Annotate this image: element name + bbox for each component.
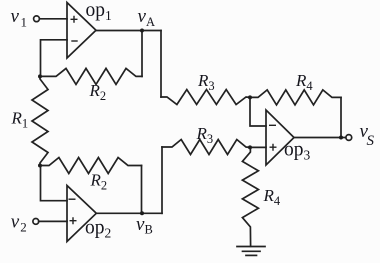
op1 - pin (71, 40, 77, 42)
op2 - pin (69, 198, 76, 200)
resistor R3 (top) (161, 90, 250, 105)
op-amp op2 (67, 186, 96, 242)
terminal v2 (33, 219, 39, 225)
node B junction (140, 211, 144, 215)
wire op3 output to terminal vS (294, 137, 346, 139)
wire node A down to R3 top (160, 31, 162, 98)
wire op2 output to node B (96, 212, 162, 214)
op2 + pin (70, 217, 77, 224)
ground (237, 246, 265, 248)
wire op1 - input feedback (41, 40, 68, 77)
wire junction to op3 + input (250, 146, 266, 148)
op-amp op1 (67, 3, 96, 59)
resistor R4 (bottom) (242, 147, 258, 246)
op1 + pin (71, 16, 78, 23)
svg-text:v2: v2 (11, 212, 27, 235)
output node junction (339, 136, 343, 140)
op3 + pin (270, 144, 277, 151)
node A junction (140, 29, 144, 33)
wire node B up to R3 bottom (161, 147, 163, 213)
svg-text:R3: R3 (196, 124, 214, 146)
svg-text:R2: R2 (89, 81, 107, 103)
svg-text:vB: vB (136, 214, 153, 237)
wire R2 bottom to node B (141, 166, 143, 214)
resistor R1 (32, 76, 48, 165)
svg-text:op3: op3 (284, 139, 311, 162)
node junction R1/R2 bottom (38, 164, 42, 168)
svg-text:R1: R1 (11, 108, 29, 130)
wire junction to op3 - input (250, 97, 266, 126)
wire v1 to op1 + input (39, 18, 67, 20)
node junction R3/R4 bottom (248, 145, 252, 149)
terminal v1 (34, 16, 40, 22)
svg-text:R2: R2 (90, 171, 108, 193)
resistor R2 (bottom) (40, 158, 142, 174)
svg-text:op1: op1 (86, 0, 112, 23)
wire R4 top down to output node (340, 97, 342, 137)
svg-text:R4: R4 (263, 186, 281, 208)
svg-text:v1: v1 (11, 6, 27, 30)
wire R2 top to node A (141, 31, 143, 77)
node junction R3/R4 top (248, 95, 252, 99)
terminal vS (346, 135, 352, 141)
svg-text:vA: vA (138, 6, 155, 29)
wire op1 output to node A (96, 30, 161, 32)
svg-text:vS: vS (360, 121, 375, 149)
wire op2 - input feedback (41, 166, 68, 201)
wire v2 to op2 + input (39, 220, 67, 222)
op-amp op3 (266, 110, 294, 165)
resistor R4 (top) (250, 90, 341, 105)
resistor R3 (bottom) (162, 140, 250, 155)
svg-text:op2: op2 (85, 217, 111, 240)
resistor R2 (top) (40, 68, 142, 84)
op3 - pin (269, 124, 276, 126)
svg-text:R4: R4 (295, 71, 313, 93)
svg-text:R3: R3 (197, 71, 215, 93)
node junction R1/R2 top (38, 74, 42, 78)
